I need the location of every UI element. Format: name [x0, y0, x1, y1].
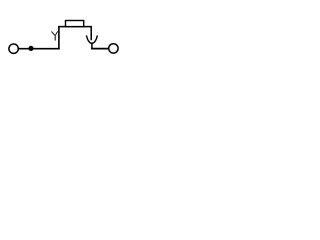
wire top horizontal — [58, 26, 92, 28]
junction dot — [28, 46, 33, 51]
wire right horizontal — [91, 48, 109, 50]
test socket glyph prong left — [52, 31, 55, 35]
terminal point circle right — [109, 44, 118, 53]
socket stem — [91, 43, 93, 50]
socket fork contact — [86, 35, 97, 43]
wire left vertical riser — [58, 27, 60, 50]
test socket glyph stem — [54, 35, 56, 41]
fuse — [66, 21, 84, 27]
test socket glyph prong right — [56, 31, 58, 35]
wire left horizontal — [18, 48, 59, 50]
pin of plug contact — [90, 27, 92, 41]
terminal point circle left — [9, 44, 18, 53]
